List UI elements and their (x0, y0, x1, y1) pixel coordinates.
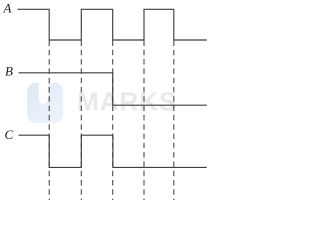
svg-text:C: C (5, 127, 14, 142)
svg-text:MARKS: MARKS (77, 87, 177, 117)
svg-text:A: A (3, 1, 12, 16)
dashed guide line t1 (48, 41, 50, 201)
wire waveform A (18, 9, 207, 40)
dashed guide line t4 (143, 41, 145, 201)
dashed guide line t3 (112, 41, 114, 201)
svg-text:B: B (5, 64, 13, 79)
watermark logo U (27, 74, 63, 123)
wire waveform C (19, 135, 207, 167)
dashed guide line t5 (173, 41, 175, 201)
wire waveform B (19, 73, 207, 105)
dashed guide line t2 (80, 41, 82, 201)
